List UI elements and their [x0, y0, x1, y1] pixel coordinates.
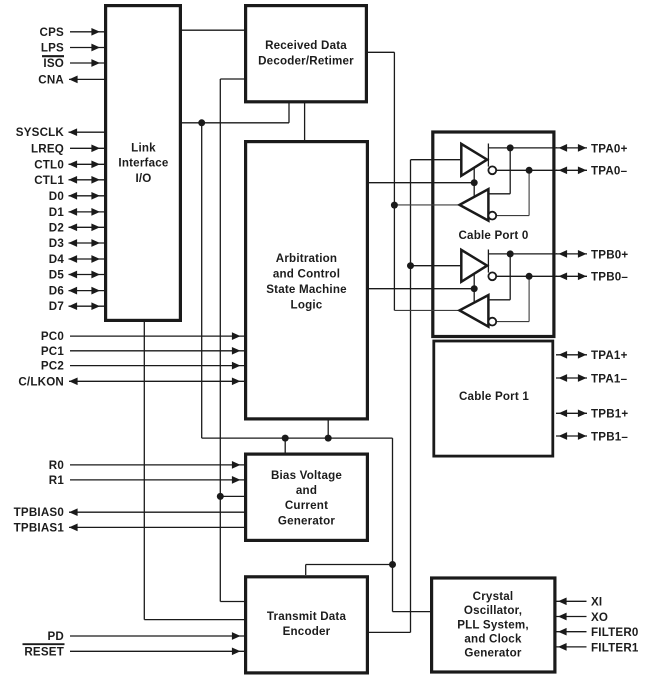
svg-text:TPBIAS1: TPBIAS1 [14, 521, 65, 534]
svg-text:ISO: ISO [43, 57, 64, 70]
svg-text:Arbitration: Arbitration [276, 252, 337, 265]
svg-text:Current: Current [285, 499, 328, 512]
svg-text:Cable Port 1: Cable Port 1 [459, 390, 529, 403]
svg-text:TPB0+: TPB0+ [591, 248, 628, 261]
svg-text:RESET: RESET [24, 645, 64, 658]
svg-text:Received Data: Received Data [265, 39, 347, 52]
svg-text:TPB0–: TPB0– [591, 271, 628, 284]
svg-text:Decoder/Retimer: Decoder/Retimer [258, 55, 354, 68]
svg-text:XO: XO [591, 611, 608, 624]
svg-text:CTL0: CTL0 [34, 158, 64, 171]
svg-text:TPB1+: TPB1+ [591, 408, 628, 421]
svg-text:SYSCLK: SYSCLK [16, 126, 65, 139]
svg-text:PD: PD [47, 630, 64, 643]
svg-text:PLL System,: PLL System, [457, 618, 529, 631]
svg-text:FILTER1: FILTER1 [591, 641, 639, 654]
svg-text:D5: D5 [49, 269, 65, 282]
svg-text:Oscillator,: Oscillator, [464, 604, 522, 617]
svg-text:PC1: PC1 [41, 345, 65, 358]
svg-text:D4: D4 [49, 253, 65, 266]
svg-text:FILTER0: FILTER0 [591, 626, 639, 639]
svg-text:TPA0–: TPA0– [591, 165, 628, 178]
svg-text:Link: Link [131, 141, 156, 154]
svg-text:Crystal: Crystal [473, 590, 514, 603]
svg-text:D3: D3 [49, 237, 65, 250]
svg-text:Cable Port 0: Cable Port 0 [458, 229, 528, 242]
svg-text:CTL1: CTL1 [34, 174, 64, 187]
svg-text:R1: R1 [49, 474, 65, 487]
svg-text:TPA0+: TPA0+ [591, 142, 628, 155]
svg-text:LPS: LPS [41, 42, 64, 55]
svg-text:TPBIAS0: TPBIAS0 [14, 506, 64, 519]
svg-text:TPA1+: TPA1+ [591, 349, 628, 362]
svg-text:Generator: Generator [278, 514, 335, 527]
svg-text:R0: R0 [49, 459, 64, 472]
svg-text:and Clock: and Clock [464, 632, 522, 645]
svg-text:Transmit Data: Transmit Data [267, 610, 347, 623]
svg-text:Generator: Generator [464, 647, 521, 660]
svg-text:D6: D6 [49, 285, 65, 298]
svg-text:D1: D1 [49, 206, 65, 219]
svg-text:D0: D0 [49, 190, 64, 203]
svg-text:Bias Voltage: Bias Voltage [271, 469, 342, 482]
svg-text:State Machine: State Machine [266, 283, 347, 296]
svg-text:D7: D7 [49, 300, 64, 313]
svg-text:and: and [296, 484, 317, 497]
svg-text:XI: XI [591, 596, 602, 609]
svg-text:LREQ: LREQ [31, 142, 64, 155]
svg-text:PC2: PC2 [41, 360, 64, 373]
svg-text:CNA: CNA [38, 73, 64, 86]
svg-text:C/LKON: C/LKON [18, 375, 64, 388]
svg-text:and Control: and Control [273, 268, 340, 281]
svg-text:CPS: CPS [40, 26, 65, 39]
svg-text:Interface: Interface [118, 157, 168, 170]
svg-text:TPB1–: TPB1– [591, 430, 628, 443]
svg-text:TPA1–: TPA1– [591, 372, 628, 385]
svg-text:I/O: I/O [135, 172, 151, 185]
svg-text:Logic: Logic [291, 298, 323, 311]
svg-text:Encoder: Encoder [283, 625, 331, 638]
svg-text:D2: D2 [49, 221, 64, 234]
svg-text:PC0: PC0 [41, 330, 64, 343]
